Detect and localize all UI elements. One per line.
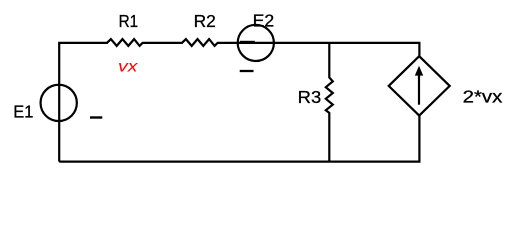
svg-text:R3: R3 — [298, 87, 322, 107]
svg-text:E1: E1 — [13, 102, 33, 122]
svg-text:R2: R2 — [194, 11, 216, 31]
svg-text:2*vx: 2*vx — [463, 86, 503, 106]
svg-text:E2: E2 — [253, 10, 275, 30]
svg-text:R1: R1 — [119, 11, 139, 31]
svg-text:vx: vx — [118, 59, 139, 76]
